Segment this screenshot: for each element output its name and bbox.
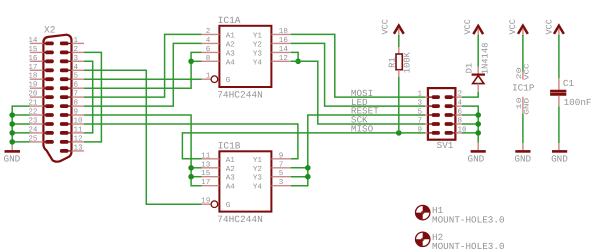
svg-text:A3: A3: [226, 174, 236, 183]
svg-text:16: 16: [279, 36, 289, 45]
svg-text:4: 4: [206, 37, 211, 45]
svg-text:13: 13: [201, 160, 211, 169]
svg-text:3: 3: [417, 99, 422, 108]
svg-text:2: 2: [458, 90, 463, 99]
svg-text:25: 25: [28, 134, 38, 143]
svg-text:10: 10: [458, 125, 468, 134]
svg-text:G: G: [226, 201, 231, 210]
svg-text:23: 23: [28, 117, 38, 126]
svg-text:1: 1: [74, 37, 79, 45]
svg-text:Y3: Y3: [253, 174, 263, 183]
svg-text:5: 5: [279, 170, 284, 178]
svg-text:MOUNT-HOLE3.0: MOUNT-HOLE3.0: [432, 214, 505, 225]
svg-text:IC1P: IC1P: [512, 83, 535, 94]
svg-text:6: 6: [458, 108, 463, 117]
svg-text:14: 14: [28, 37, 38, 45]
svg-text:GND: GND: [4, 153, 21, 164]
svg-text:4: 4: [74, 64, 79, 72]
svg-text:19: 19: [28, 81, 38, 90]
svg-text:A1: A1: [226, 32, 236, 40]
svg-text:Y4: Y4: [253, 184, 263, 192]
svg-text:74HC244N: 74HC244N: [217, 90, 263, 101]
svg-text:24: 24: [28, 125, 38, 134]
svg-text:9: 9: [417, 125, 422, 134]
svg-text:G: G: [226, 76, 231, 85]
svg-text:Y2: Y2: [253, 40, 263, 49]
svg-text:5: 5: [74, 73, 79, 81]
svg-text:Y2: Y2: [253, 165, 263, 174]
svg-text:100nF: 100nF: [564, 97, 592, 108]
svg-text:16: 16: [28, 54, 38, 63]
svg-text:Y1: Y1: [253, 32, 263, 40]
svg-text:Y4: Y4: [253, 59, 263, 67]
svg-text:22: 22: [28, 108, 38, 117]
svg-text:C1: C1: [563, 78, 575, 89]
svg-text:VCC: VCC: [381, 19, 391, 34]
svg-text:18: 18: [28, 72, 38, 81]
svg-text:18: 18: [279, 27, 289, 36]
svg-text:8: 8: [206, 54, 211, 63]
svg-text:14: 14: [279, 46, 289, 54]
svg-text:IC1B: IC1B: [218, 140, 241, 151]
svg-text:3: 3: [74, 54, 79, 63]
svg-text:A4: A4: [226, 184, 236, 192]
svg-text:A4: A4: [226, 59, 236, 67]
svg-text:7: 7: [417, 118, 422, 126]
svg-text:19: 19: [201, 197, 211, 206]
svg-text:R1: R1: [388, 57, 398, 68]
svg-text:17: 17: [28, 64, 37, 72]
svg-text:GND: GND: [524, 98, 531, 115]
svg-text:A2: A2: [226, 165, 236, 174]
svg-text:17: 17: [201, 179, 210, 187]
svg-text:2: 2: [206, 27, 211, 36]
svg-text:2: 2: [74, 45, 79, 54]
svg-text:15: 15: [28, 46, 38, 54]
svg-text:12: 12: [279, 54, 289, 63]
svg-text:1N4148: 1N4148: [481, 43, 491, 75]
svg-text:9: 9: [279, 151, 284, 160]
svg-text:20: 20: [28, 90, 38, 99]
svg-text:7: 7: [279, 161, 284, 169]
svg-text:6: 6: [74, 81, 79, 90]
svg-text:5: 5: [417, 109, 422, 117]
svg-text:8: 8: [458, 117, 463, 126]
svg-text:13: 13: [74, 143, 84, 152]
svg-text:7: 7: [74, 91, 79, 99]
svg-text:11: 11: [74, 126, 84, 134]
svg-text:3: 3: [279, 178, 284, 187]
svg-text:A2: A2: [226, 40, 236, 49]
svg-text:D1: D1: [465, 63, 475, 74]
svg-text:6: 6: [206, 45, 211, 54]
svg-text:VCC: VCC: [463, 19, 473, 34]
svg-text:11: 11: [201, 152, 211, 160]
svg-text:VCC: VCC: [524, 63, 531, 80]
svg-text:Y3: Y3: [253, 49, 263, 58]
svg-text:VCC: VCC: [544, 19, 554, 34]
svg-text:74HC244N: 74HC244N: [217, 214, 263, 225]
svg-text:MOUNT-HOLE3.0: MOUNT-HOLE3.0: [432, 241, 505, 252]
svg-text:9: 9: [74, 108, 79, 117]
svg-text:MISO: MISO: [351, 124, 374, 135]
svg-text:12: 12: [74, 134, 84, 143]
svg-text:4: 4: [458, 100, 463, 108]
svg-text:8: 8: [74, 99, 79, 108]
svg-text:1: 1: [417, 91, 422, 99]
svg-text:VCC: VCC: [508, 19, 518, 34]
svg-text:Y1: Y1: [253, 157, 263, 165]
svg-text:100K: 100K: [403, 51, 413, 73]
svg-text:10: 10: [74, 117, 84, 126]
svg-text:SV1: SV1: [437, 140, 454, 151]
svg-text:GND: GND: [468, 153, 485, 164]
svg-text:A1: A1: [226, 157, 236, 165]
svg-text:21: 21: [28, 99, 38, 108]
svg-text:A3: A3: [226, 49, 236, 58]
svg-text:X2: X2: [44, 24, 56, 35]
svg-text:IC1A: IC1A: [218, 15, 241, 26]
svg-text:GND: GND: [551, 153, 568, 164]
svg-text:1: 1: [206, 73, 211, 81]
svg-text:GND: GND: [514, 153, 531, 164]
svg-text:15: 15: [201, 170, 211, 178]
